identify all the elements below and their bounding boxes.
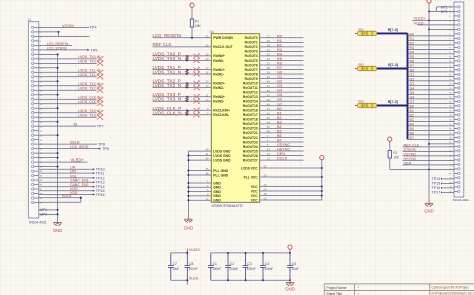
svg-text:LVDS_TX2_N: LVDS_TX2_N [153, 83, 182, 88]
junction VCC rail y=186.5 [321, 186, 323, 188]
resistor pack RN2 (G bus series resistors) [355, 63, 377, 71]
ground symbol GND (U1) [184, 219, 192, 222]
capacitor C2 100nF [225, 253, 231, 280]
svg-text:RxIN1-: RxIN1- [213, 72, 224, 76]
test point TP10 [93, 168, 95, 170]
wire LVDS_TX2_N to U1 [153, 87, 212, 89]
wire J1 pin 30 to ground rail [39, 157, 58, 159]
termination resistor for LVDS_TX1 [186, 70, 189, 75]
wire LCD_RESETa to U1 PWR DOWN [153, 37, 212, 39]
svg-text:R4: R4 [410, 51, 415, 55]
wire U1 GND pin y=151.1 [188, 150, 211, 152]
wire LVDS_TX3_P (J1 pin 21) [39, 116, 97, 118]
junction ground rail row [428, 143, 430, 145]
svg-text:VLED-: VLED- [62, 194, 73, 198]
junction power/VLED+ [428, 19, 430, 21]
svg-text:10uF: 10uF [291, 267, 298, 271]
wire bus tap B7 [408, 138, 455, 140]
wire RxOUT3 net R3 [260, 50, 304, 52]
svg-text:R[7..0]: R[7..0] [388, 28, 398, 32]
wire VLED bottom rail [171, 279, 188, 281]
wire TP17 (J3) [443, 191, 454, 193]
svg-text:CABC_EN1: CABC_EN1 [70, 179, 89, 183]
svg-text:LVDS GND: LVDS GND [213, 154, 231, 158]
wire J1 pin 32 to ground rail [39, 166, 58, 168]
wire LVDS_TX0_N to U1 [153, 59, 212, 61]
svg-text:U/D: U/D [70, 170, 77, 174]
svg-text:VCC: VCC [251, 185, 259, 189]
test point TP11 [93, 172, 95, 174]
svg-text:100nF: 100nF [264, 267, 273, 271]
wire SELB (J1 pin 27) [39, 143, 97, 145]
differential pair cross marker LVDS_TX1 (U1 side) [193, 67, 199, 76]
wire bus tap R1 [408, 39, 455, 41]
junction ground rail GND row [428, 168, 430, 170]
svg-text:100nF: 100nF [189, 267, 198, 271]
svg-text:RxOUT0: RxOUT0 [245, 36, 258, 40]
svg-text:RxOUT3: RxOUT3 [245, 50, 258, 54]
svg-text:VLED-: VLED- [189, 277, 201, 281]
wire RxOUT9 net G1 [260, 78, 304, 80]
test point TP12 [93, 177, 95, 179]
power port (J3 top) [427, 0, 431, 3]
junction U1 ground rail y=183 [187, 182, 189, 184]
svg-text:RN1: RN1 [359, 28, 365, 32]
wire U1 VCC to VCC rail [260, 190, 322, 192]
svg-text:RxCLKIN+: RxCLKIN+ [213, 109, 230, 113]
junction J3 MP2 [428, 10, 430, 12]
svg-text:G4: G4 [410, 87, 415, 91]
wire bus tap G7 [408, 102, 455, 104]
svg-text:VLED+: VLED+ [71, 157, 85, 162]
svg-text:RxOUT27: RxOUT27 [243, 158, 258, 162]
svg-text:B6: B6 [410, 132, 414, 136]
svg-text:TP12: TP12 [96, 176, 105, 180]
svg-text:RxOUT13: RxOUT13 [243, 95, 258, 99]
junction U1 ground rail y=187.3 [187, 186, 189, 188]
wire RxOUT24 net VSYNC [260, 146, 304, 148]
svg-text:B6: B6 [277, 134, 282, 138]
bus G[7..0] horizontal [377, 68, 408, 70]
wire HSYNC (J3) [403, 159, 454, 161]
differential pair cross marker LVDS_CLK (U1 side) [193, 108, 199, 117]
wire ID (J1 pin 23) [39, 125, 96, 127]
svg-text:B0: B0 [410, 105, 414, 109]
wire STBYB (J3) [403, 150, 454, 152]
svg-text:RxOUT8: RxOUT8 [245, 72, 258, 76]
svg-text:B3: B3 [410, 118, 414, 122]
wire VGH (J1) [39, 190, 94, 192]
svg-text:G5: G5 [410, 91, 415, 95]
wire RxOUT27 net DCLK [260, 159, 304, 161]
wire J3 pin row 29 [429, 28, 454, 30]
wire REF CLK (J3) [403, 146, 454, 148]
wire RxOUT6 net R6 [260, 64, 304, 66]
wire CABC_EN2 (J1) [39, 186, 94, 188]
wire GND bottom rail (caps) [211, 279, 290, 281]
svg-text:Project Name: Project Name [327, 286, 347, 290]
svg-text:C3: C3 [247, 262, 251, 266]
svg-text:B1: B1 [410, 109, 414, 113]
capacitor C1 100nF [208, 253, 214, 280]
svg-text:RxOUT24: RxOUT24 [243, 145, 258, 149]
junction J1 MP1 [57, 209, 59, 211]
differential pair cross marker LVDS_TX1 (J1 side) [97, 70, 103, 79]
test point TP15 [93, 190, 95, 192]
differential pair cross marker LVDS_CLK (J1 side) [97, 97, 103, 106]
wire RxOUT14 net G6 [260, 100, 304, 102]
connector J3 body 54104-4031 [454, 2, 464, 197]
svg-text:R3: R3 [410, 46, 415, 50]
wire VLED+ (J3) [412, 19, 454, 21]
wire TP15 (J3) [443, 182, 454, 184]
wire bus tap R6 [408, 62, 455, 64]
junction cap rail top x=263 [262, 252, 264, 254]
termination resistor for LVDS_TX2 [186, 83, 189, 88]
junction cap rail top x=245.5 [245, 252, 247, 254]
wire VCC3V3 to R2 [191, 7, 193, 19]
wire bus tap B1 [408, 111, 455, 113]
svg-text:10uF: 10uF [172, 267, 179, 271]
wire U1 GND pin y=191.6 [188, 191, 211, 193]
wire LVDS_TX3_N to U1 [153, 100, 212, 102]
svg-text:LVDS GND: LVDS GND [213, 158, 231, 162]
svg-text:RxOUT26: RxOUT26 [243, 154, 258, 158]
svg-text:GND: GND [53, 228, 63, 233]
svg-text:R7: R7 [410, 64, 415, 68]
wire RxOUT16 net B0 [260, 109, 304, 111]
svg-text:LVDS_CLK_N: LVDS_CLK_N [153, 110, 182, 115]
wire J3 MP1-MP2 tie [436, 7, 438, 11]
wire VCOM (J1 pin 1) [39, 26, 89, 28]
termination resistor for LVDS_TX0 [186, 56, 189, 61]
svg-text:DCLK: DCLK [277, 157, 288, 161]
svg-text:RxOUT22: RxOUT22 [243, 136, 258, 140]
wire RxOUT13 net G5 [260, 96, 304, 98]
svg-text:RxOUT25: RxOUT25 [243, 149, 258, 153]
svg-text:B3: B3 [277, 120, 282, 124]
svg-text:VCC: VCC [251, 189, 259, 193]
ground symbol GND (J3) [425, 203, 433, 206]
svg-text:R1: R1 [277, 39, 282, 43]
svg-text:B4: B4 [410, 123, 414, 127]
svg-text:G0: G0 [277, 71, 282, 75]
svg-text:B2: B2 [410, 114, 414, 118]
wire LCD_STBYB (J1 pin 6) [39, 49, 88, 51]
svg-text:VLED-: VLED- [414, 21, 426, 25]
wire J1 pin 19 to ground rail [39, 107, 58, 109]
svg-text:GND: GND [285, 287, 295, 292]
svg-text:DEN: DEN [404, 161, 412, 165]
wire LVDS_TX0_P to U1 [153, 55, 212, 57]
svg-text:C2: C2 [230, 262, 234, 266]
ground symbol GND (caps) [286, 283, 294, 286]
wire J1 pin2-pin3 tie [58, 32, 60, 36]
junction VCC rail y=168 [321, 167, 323, 169]
wire LVDS_CLK_P (J1 pin 18) [39, 103, 97, 105]
test point TP5 [87, 49, 89, 51]
title block [324, 284, 474, 295]
svg-text:G[7..0]: G[7..0] [388, 63, 398, 67]
wire DEN (J3) [403, 164, 454, 166]
svg-text:B0: B0 [277, 107, 282, 111]
svg-text:R5: R5 [277, 57, 282, 61]
wire U1 GND pin y=195.9 [188, 195, 211, 197]
bus B[7..0] horizontal [377, 105, 408, 107]
junction J1 MP2 [57, 213, 59, 215]
svg-text:G7: G7 [410, 100, 415, 104]
svg-text:REF CLK: REF CLK [153, 42, 172, 47]
wire bus tap R7 [408, 66, 455, 68]
svg-text:HSYNC: HSYNC [277, 148, 291, 152]
svg-text:100nF: 100nF [229, 267, 238, 271]
test point TP14 [93, 186, 95, 188]
svg-text:RxIN2+: RxIN2+ [213, 81, 225, 85]
wire VLED+ (J1 pin 31) [39, 161, 88, 163]
svg-text:STBYB: STBYB [404, 148, 417, 152]
svg-text:TP5: TP5 [91, 49, 98, 53]
svg-text:RxIN0-: RxIN0- [213, 59, 224, 63]
svg-text:C7: C7 [173, 262, 177, 266]
svg-text:LVDS_TX0_N: LVDS_TX0_N [153, 56, 182, 61]
wire J3 MP2 [429, 10, 454, 12]
svg-text:B7: B7 [410, 136, 414, 140]
wire bus tap B0 [408, 107, 455, 109]
junction cap rail top x=228 [227, 252, 229, 254]
wire J1 pin 3 [39, 35, 90, 37]
svg-text:TP7: TP7 [97, 125, 104, 129]
wire VLED- pin39-40 tie [80, 198, 82, 203]
wire LVDS_TX0_N (J1 pin 8) [39, 58, 97, 60]
svg-text:G1: G1 [277, 75, 282, 79]
wire RxOUT12 net G4 [260, 91, 304, 93]
wire LVDS_TX1_N to U1 [153, 73, 212, 75]
svg-text:PLL GND: PLL GND [213, 169, 228, 173]
svg-text:B7: B7 [277, 138, 282, 142]
power port above R1 [388, 137, 392, 141]
svg-text:R1: R1 [410, 37, 415, 41]
junction U1 ground rail y=160.1 [187, 159, 189, 161]
wire RxOUT19 net B3 [260, 123, 304, 125]
wire U1 VCC to VCC rail [260, 199, 322, 201]
svg-text:RxIN3+: RxIN3+ [213, 95, 225, 99]
wire bus tap B5 [408, 129, 455, 131]
resistor R2 10K [190, 19, 193, 27]
wire LVDS_CLK_P to U1 [153, 109, 212, 111]
junction J1 pin 30 ground [57, 157, 59, 159]
svg-text:LCD_RESETa: LCD_RESETa [47, 42, 69, 46]
wire J1 pin 10 to ground rail [39, 67, 58, 69]
wire bus tap G3 [408, 84, 455, 86]
svg-text:VCC: VCC [251, 198, 259, 202]
termination resistor for LVDS_TX3 [186, 97, 189, 102]
svg-text:B5: B5 [410, 127, 414, 131]
wire RxOUT23 net B7 [260, 141, 304, 143]
wire RxOUT0 net R0 [260, 37, 304, 39]
svg-text:LVDS VCC: LVDS VCC [241, 166, 258, 170]
U1 left pin numbers [206, 34, 209, 200]
wire bus tap G5 [408, 93, 455, 95]
junction J1 pin 29 ground [57, 152, 59, 154]
J1 pin numbers [40, 28, 43, 217]
U1 left pin names [213, 36, 233, 202]
svg-text:RxOUT11: RxOUT11 [243, 86, 258, 90]
junction VCC rail y=177 [321, 176, 323, 178]
wire J1 MP1 to ground [39, 209, 58, 211]
wire bus tap R3 [408, 48, 455, 50]
svg-text:VSYNC: VSYNC [277, 143, 290, 147]
svg-text:B4: B4 [277, 125, 282, 129]
junction cap rail bottom x=245.5 [245, 279, 247, 281]
svg-text:LCD_RESETa: LCD_RESETa [153, 33, 182, 38]
junction J1 pin 10 ground [57, 67, 59, 69]
svg-text:TP16: TP16 [432, 186, 441, 190]
svg-text:TP11: TP11 [96, 172, 105, 176]
wire LVDS_TX0_P (J1 pin 9) [39, 62, 97, 64]
svg-text:MP1: MP1 [441, 5, 448, 9]
wire J3 pin row 143.9 [429, 143, 454, 145]
wire RxOUT25 net HSYNC [260, 150, 304, 152]
wire C5 to GND [289, 280, 291, 282]
svg-text:LCD_STBYB: LCD_STBYB [47, 46, 68, 50]
wire bus tap B3 [408, 120, 455, 122]
svg-text:VSYNC: VSYNC [404, 152, 417, 156]
differential pair cross marker LVDS_TX3 (J1 side) [97, 111, 103, 120]
svg-text:G5: G5 [277, 93, 282, 97]
svg-text:RxOUT6: RxOUT6 [245, 63, 258, 67]
wire bus tap G0 [408, 71, 455, 73]
svg-text:DS90CF384A4TD: DS90CF384A4TD [212, 203, 244, 208]
junction R2 / LCD_RESETa [191, 37, 193, 39]
svg-text:RxOUT20: RxOUT20 [243, 127, 258, 131]
wire U1 ground rail [187, 151, 189, 219]
junction U1 ground rail y=195.9 [187, 195, 189, 197]
test point TP13 [93, 181, 95, 183]
wire VLED- (J3) [418, 24, 455, 26]
svg-text:R7: R7 [277, 66, 282, 70]
wire VSYNC (J3) [403, 155, 454, 157]
wire R1 to power port [389, 141, 391, 150]
wire bus tap R5 [408, 57, 455, 59]
wire RxOUT22 net B6 [260, 136, 304, 138]
test point TP9 [99, 148, 101, 150]
svg-text:R0: R0 [410, 33, 415, 37]
junction J1 pin 16 ground [57, 94, 59, 96]
capacitor C5 10uF [287, 253, 293, 280]
wire VLED top rail [171, 252, 188, 254]
svg-text:G6: G6 [277, 98, 282, 102]
wire J1 MP2 to ground [39, 213, 58, 215]
wire VGL (J1) [39, 177, 94, 179]
wire LCD_AVDD (J1 pin 28) [39, 148, 100, 150]
wire bus tap B2 [408, 116, 455, 118]
wire R2 to PWR DOWN net [191, 27, 193, 38]
wire LVDS_TX2_P to U1 [153, 82, 212, 84]
svg-text:G3: G3 [277, 84, 282, 88]
svg-text:TP9: TP9 [102, 147, 109, 151]
svg-text:RxOUT19: RxOUT19 [243, 122, 258, 126]
wire RxOUT2 net R2 [260, 46, 304, 48]
wire RxOUT11 net G3 [260, 87, 304, 89]
svg-text:R0: R0 [277, 34, 282, 38]
svg-text:TP14: TP14 [432, 177, 441, 181]
wire LVDS_TX2_N (J1 pin 14) [39, 85, 97, 87]
wire TP16 (J3) [443, 187, 454, 189]
wire VCC top rail (caps) [211, 252, 290, 254]
svg-text:RxIN0+: RxIN0+ [213, 54, 225, 58]
ground symbol GND (J1) [53, 223, 61, 226]
svg-text:RxOUT16: RxOUT16 [243, 109, 258, 113]
wire R1 to GND row [389, 158, 391, 169]
wire bus tap G1 [408, 75, 455, 77]
svg-text:GND: GND [213, 199, 221, 203]
junction J1 pin 22 ground [57, 121, 59, 123]
wire VDD (J1) [39, 194, 94, 196]
svg-text:RxOUT23: RxOUT23 [243, 140, 258, 144]
wire RxOUT20 net B4 [260, 127, 304, 129]
svg-text:SELB: SELB [70, 141, 80, 145]
junction U1 ground rail y=170.5 [187, 170, 189, 172]
wire J1 pin 22 to ground rail [39, 121, 58, 123]
svg-text:R2: R2 [410, 42, 415, 46]
svg-text:RxOUT4: RxOUT4 [245, 54, 258, 58]
wire VCC3V3 rail (U1) [321, 160, 323, 200]
svg-text:REF CLK: REF CLK [404, 143, 420, 147]
wire L/R (J1) [39, 168, 94, 170]
wire LVDS_TX3_P to U1 [153, 96, 212, 98]
svg-text:TP17: TP17 [432, 191, 441, 195]
svg-text:LVDS_TX3_N: LVDS_TX3_N [153, 97, 182, 102]
U1 right pin numbers [264, 34, 271, 200]
svg-text:C8: C8 [189, 262, 193, 266]
svg-text:B5: B5 [277, 129, 282, 133]
junction cap rail top x=290 [289, 252, 291, 254]
svg-text:VCC: VCC [251, 194, 259, 198]
wire RxOUT4 net R4 [260, 55, 304, 57]
wire RxOUT10 net G2 [260, 82, 304, 84]
wire LCD_RESETa (J1 pin 5) [39, 44, 72, 46]
svg-text:LVDS_TX1_N: LVDS_TX1_N [153, 70, 182, 75]
svg-text:TP13: TP13 [96, 181, 105, 185]
power port VCC3V3 above R2 [190, 3, 194, 7]
junction U1 ground rail y=175 [187, 174, 189, 176]
svg-text:RxOUT5: RxOUT5 [245, 59, 258, 63]
svg-text:Cannot open file R:\Projec: Cannot open file R:\Projec [432, 285, 470, 289]
differential pair cross marker LVDS_TX0 (U1 side) [193, 54, 199, 63]
capacitor C3 100nF [243, 253, 249, 280]
U1 right pin names [241, 36, 258, 202]
svg-text:RxOUT1: RxOUT1 [245, 41, 258, 45]
wire U1 VCC to VCC rail [260, 186, 322, 188]
bus vertical R/G/B [407, 33, 409, 139]
svg-text:RxIN2-: RxIN2- [213, 86, 224, 90]
svg-text:R4: R4 [277, 52, 282, 56]
svg-text:PLL VCC: PLL VCC [244, 175, 259, 179]
wire LVDS_CLK_N to U1 [153, 114, 212, 116]
junction row 29 [428, 28, 430, 30]
junction at J1 pin2 tie [58, 31, 60, 33]
wire LVDS_TX1_P (J1 pin 12) [39, 76, 97, 78]
differential pair cross marker LVDS_TX3 (U1 side) [193, 94, 199, 103]
wire LVDS_TX1_N (J1 pin 11) [39, 71, 97, 73]
capacitor C4 100nF [260, 253, 266, 280]
svg-text:RxIN3-: RxIN3- [213, 100, 224, 104]
svg-text:TP16: TP16 [96, 193, 105, 197]
resistor pack RN1 (R bus series resistors) [355, 28, 377, 36]
wire bus tap B4 [408, 125, 455, 127]
wire bus tap B6 [408, 134, 455, 136]
junction U1 ground rail y=155.6 [187, 155, 189, 157]
